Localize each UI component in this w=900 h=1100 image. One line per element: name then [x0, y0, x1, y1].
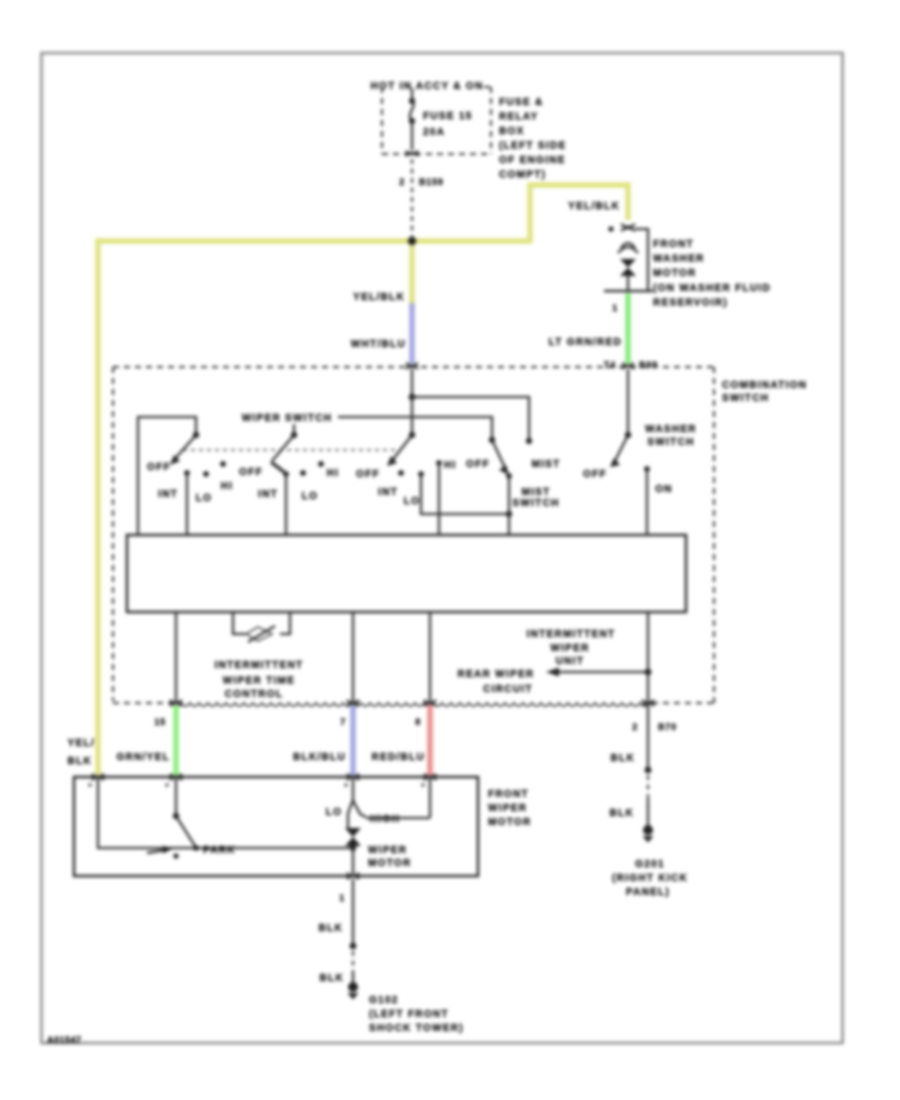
intermittent time control R1 loop: [233, 612, 290, 642]
wire YEL/BLK main feed (yellow): [98, 185, 628, 777]
label intermittent wiper time control: [215, 660, 304, 700]
svg-text:FRONT: FRONT: [653, 239, 694, 250]
wire to ground G201: [647, 799, 649, 826]
svg-text:(ON WASHER FLUID: (ON WASHER FLUID: [653, 283, 771, 294]
label rear wiper circuit: [458, 669, 535, 695]
svg-text:G201: G201: [635, 859, 665, 870]
svg-text:COMBINATION: COMBINATION: [722, 380, 807, 391]
washer switch: [610, 432, 650, 472]
svg-text:GRN/YEL: GRN/YEL: [116, 752, 170, 763]
svg-text:HIGH: HIGH: [370, 814, 400, 825]
svg-text:MOTOR: MOTOR: [488, 817, 532, 828]
svg-text:SWITCH: SWITCH: [647, 437, 694, 448]
wire unit to B70: [647, 612, 649, 703]
svg-text:OFF: OFF: [466, 459, 490, 470]
svg-text:MOTOR: MOTOR: [368, 858, 412, 869]
svg-text:HOT IN ACCY & ON: HOT IN ACCY & ON: [370, 81, 483, 92]
fuse box location label: [499, 97, 566, 181]
svg-text:SWITCH: SWITCH: [722, 393, 769, 404]
svg-text:(LEFT FRONT: (LEFT FRONT: [369, 1009, 449, 1020]
label MIST SWITCH: [512, 487, 559, 509]
svg-text:7: 7: [340, 717, 346, 727]
front wiper motor box: [74, 777, 478, 876]
wire wiper switch bus right: [338, 417, 492, 438]
switch wafer 4 (mist): [489, 437, 512, 479]
switch wafer 1 (wiper): [170, 432, 226, 477]
svg-text:BLK: BLK: [610, 808, 634, 819]
svg-text:8: 8: [415, 717, 421, 727]
wire wafer3 HI to unit: [438, 463, 440, 535]
svg-text:G102: G102: [369, 995, 399, 1006]
connector at combination switch entry (wiper feed): [406, 363, 418, 369]
svg-text:INT: INT: [378, 487, 398, 498]
svg-text:WHT/BLU: WHT/BLU: [351, 339, 406, 350]
wire YEL/BLK short drop below splice (yellow): [409, 241, 415, 303]
wafer4 position labels: [466, 459, 561, 470]
connector at motor box (BLK/BLU): [347, 774, 359, 780]
wire wafer2 to unit: [285, 474, 287, 535]
svg-text:WASHER: WASHER: [653, 254, 705, 265]
svg-text:(RIGHT KICK: (RIGHT KICK: [612, 873, 688, 884]
wiper motor M1 (LO/HIGH brushes): [345, 777, 430, 876]
svg-text:WASHER: WASHER: [645, 424, 697, 435]
svg-text:RED/BLU: RED/BLU: [371, 752, 425, 763]
wire RED/BLU (red): [427, 705, 433, 777]
svg-text:RESERVOIR): RESERVOIR): [653, 298, 728, 309]
svg-text:BLK/BLU: BLK/BLU: [293, 752, 346, 763]
svg-text:2: 2: [632, 722, 638, 732]
svg-text:HI: HI: [327, 468, 340, 479]
wafer3 position labels: [356, 460, 457, 507]
svg-text:15: 15: [154, 717, 166, 727]
svg-text:PARK: PARK: [203, 845, 236, 856]
svg-text:(LEFT SIDE: (LEFT SIDE: [499, 141, 566, 152]
switch wafer 2 (wiper): [271, 432, 324, 477]
svg-text:OFF: OFF: [583, 469, 607, 480]
label YEL/BLK left vertical: [68, 738, 95, 767]
svg-text:BLK: BLK: [320, 973, 344, 984]
connector at fuse box exit: [406, 151, 418, 156]
connector at motor box (GRN/YEL): [170, 774, 182, 780]
wire unit pin to GRN/YEL: [175, 612, 177, 703]
svg-text:INTERMITTENT: INTERMITTENT: [215, 660, 304, 671]
intermittent wiper unit U1 (box): [127, 535, 686, 612]
svg-text:YEL/: YEL/: [68, 738, 95, 749]
label COMBINATION SWITCH: [722, 380, 807, 404]
splice junction on feed: [408, 237, 416, 245]
svg-text:MIST: MIST: [531, 459, 560, 470]
svg-text:WIPER: WIPER: [368, 845, 407, 856]
svg-text:PANEL): PANEL): [626, 887, 670, 898]
svg-text:LO: LO: [196, 493, 213, 504]
wafer1 position labels: [147, 462, 233, 504]
wire motor to ground: [352, 879, 354, 946]
svg-text:WIPER: WIPER: [488, 803, 527, 814]
svg-text:INTERMITTENT: INTERMITTENT: [527, 629, 616, 640]
connector at torn edge (GRN/YEL): [170, 700, 182, 706]
wire mist feed stub: [412, 397, 529, 440]
label G102: [369, 995, 464, 1034]
ground G102 symbol: [348, 982, 359, 1000]
svg-text:YEL/BLK: YEL/BLK: [568, 201, 620, 212]
svg-text:WIPER: WIPER: [550, 643, 589, 654]
svg-text:BLK: BLK: [611, 753, 635, 764]
svg-text:1: 1: [339, 893, 345, 903]
svg-text:LO: LO: [302, 491, 319, 502]
wire wafer3 LO to mist junction: [421, 474, 509, 514]
washer switch labels: [583, 424, 697, 495]
svg-text:HI: HI: [444, 460, 457, 471]
connector at torn edge (RED/BLU): [424, 700, 436, 706]
rear wiper circuit arrow: [546, 668, 648, 677]
front washer motor label: [653, 239, 771, 309]
svg-text:20A: 20A: [423, 127, 445, 138]
svg-text:A01547: A01547: [47, 1035, 82, 1045]
svg-text:B99: B99: [639, 360, 658, 370]
wire LT GRN/RED (green): [625, 293, 631, 364]
connector at front washer motor (pin): [608, 224, 635, 232]
ground G201 symbol: [643, 825, 654, 843]
svg-text:YEL/BLK: YEL/BLK: [353, 292, 405, 303]
svg-text:CONTROL: CONTROL: [225, 689, 284, 700]
svg-text:1: 1: [612, 303, 618, 313]
svg-text:COMPT): COMPT): [499, 170, 546, 181]
svg-text:SWITCH: SWITCH: [512, 498, 559, 509]
connector at motor box (YEL/BLK): [92, 774, 104, 780]
label G201: [612, 859, 688, 898]
svg-text:B70: B70: [658, 722, 677, 732]
svg-text:REAR WIPER: REAR WIPER: [458, 669, 535, 680]
node mist contact: [526, 438, 532, 444]
svg-text:ON: ON: [655, 484, 673, 495]
svg-text:BOX: BOX: [499, 126, 525, 137]
svg-text:UNIT: UNIT: [556, 656, 585, 667]
wire wafer1 INT to unit: [186, 473, 188, 535]
svg-text:FRONT: FRONT: [488, 789, 529, 800]
label WIPER MOTOR: [368, 845, 412, 869]
svg-text:B159: B159: [419, 177, 444, 187]
wire mist to unit: [508, 476, 510, 535]
svg-text:2: 2: [399, 177, 405, 187]
fuse box dashed outline: [382, 87, 491, 154]
fuse F15 20A: [409, 88, 415, 150]
connector at motor box bottom: [347, 873, 359, 879]
combination switch torn edge (wavy): [172, 703, 649, 706]
svg-text:SHOCK TOWER): SHOCK TOWER): [369, 1023, 464, 1034]
connector B70 pin 2 label: [632, 722, 677, 732]
wire feed inside motor box: [98, 777, 353, 848]
park switch of wiper motor: [147, 777, 199, 859]
label intermittent wiper unit: [527, 629, 616, 667]
wire washer switch feed: [627, 369, 629, 434]
svg-text:INT: INT: [158, 489, 178, 500]
svg-text:LO: LO: [326, 807, 343, 818]
svg-text:WIPER SWITCH: WIPER SWITCH: [242, 413, 333, 424]
svg-text:RELAY: RELAY: [499, 112, 538, 123]
connector at torn edge (B70): [642, 700, 654, 706]
svg-text:INT: INT: [258, 489, 278, 500]
wire WHT/BLU (blue segment): [409, 303, 415, 364]
wire washer switch to unit: [646, 469, 648, 535]
wire unit pin to RED/BLU: [429, 612, 431, 703]
wafer2 position labels: [239, 467, 339, 502]
connector T4 / B99: [604, 360, 658, 370]
pin marks inside motor box: [88, 783, 425, 787]
connector at torn edge (BLK/BLU): [347, 700, 359, 706]
splice feed junction: [409, 394, 416, 401]
svg-text:FUSE 15: FUSE 15: [423, 111, 473, 122]
svg-text:CIRCUIT: CIRCUIT: [483, 684, 533, 695]
svg-text:OFF: OFF: [239, 467, 263, 478]
wire B70 to ground segment: [647, 703, 649, 770]
wire dashed inline connector left: [352, 951, 354, 971]
connector at motor box (RED/BLU): [424, 774, 436, 780]
wire GRN/YEL (green): [173, 705, 179, 777]
svg-text:LO: LO: [404, 496, 421, 507]
gang line (mechanical link, dashed): [183, 449, 400, 451]
svg-text:LT GRN/RED: LT GRN/RED: [549, 337, 622, 348]
splice rear wiper junction: [645, 669, 652, 676]
wire wiper switch bus left: [138, 417, 196, 535]
wire BLK/BLU (blue): [350, 705, 356, 777]
fuse value label FUSE 15 20A: [423, 111, 473, 138]
svg-text:BLK: BLK: [319, 923, 343, 934]
svg-text:OF ENGINE: OF ENGINE: [499, 155, 566, 166]
svg-text:MIST: MIST: [521, 487, 550, 498]
wire dashed inline connector right: [647, 775, 649, 800]
svg-text:T4: T4: [604, 360, 616, 370]
wire to ground G102: [352, 971, 354, 983]
svg-text:HI: HI: [221, 481, 234, 492]
splice on ground wire: [350, 943, 357, 950]
svg-text:OFF: OFF: [356, 469, 380, 480]
connector B159 pin 2 label: [399, 177, 444, 187]
svg-text:FUSE &: FUSE &: [499, 97, 543, 108]
svg-text:BLK: BLK: [68, 756, 92, 767]
wire dashed from fuse to splice: [411, 159, 413, 238]
front washer motor M2: [604, 229, 653, 291]
splice on right ground wire: [645, 767, 652, 774]
wire feed into wiper switch: [411, 369, 413, 397]
label FRONT WIPER MOTOR: [488, 789, 532, 828]
svg-text:MOTOR: MOTOR: [653, 268, 697, 279]
splice mist junction: [506, 511, 512, 517]
combination switch dashed box: [113, 367, 714, 703]
wire wafer2 pivot stub: [293, 424, 295, 433]
svg-text:OFF: OFF: [147, 462, 171, 473]
svg-text:WIPER TIME: WIPER TIME: [223, 676, 295, 687]
wire unit pin to BLK/BLU: [352, 612, 354, 703]
switch wafer 3 (wiper): [387, 397, 442, 477]
